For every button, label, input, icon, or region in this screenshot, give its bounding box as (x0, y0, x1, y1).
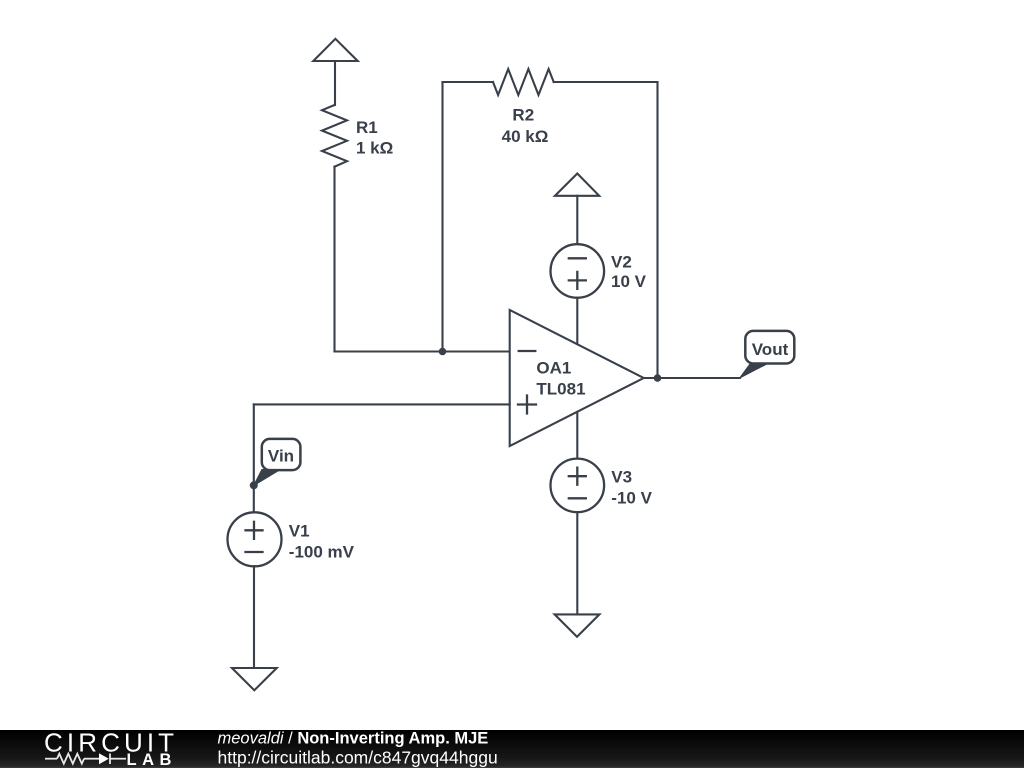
svg-text:40 kΩ: 40 kΩ (502, 127, 549, 146)
power VCC symbol (R1 top) (313, 39, 357, 61)
svg-text:R2: R2 (512, 105, 534, 124)
resistor R2 (493, 69, 554, 95)
voltage source V3 (551, 459, 605, 513)
resistor R1 (322, 105, 347, 167)
node dot (Vin anchor) (250, 481, 258, 489)
node junction dot (feedback / inverting input) (439, 348, 447, 356)
node junction dot (output) (654, 374, 662, 382)
flag Vin pointer (254, 470, 280, 486)
svg-text:http://circuitlab.com/c847gvq4: http://circuitlab.com/c847gvq44hggu (218, 748, 498, 768)
wire V3 to ground (576, 512, 578, 614)
svg-text:-10 V: -10 V (611, 489, 652, 508)
wire R2 to right vertical (554, 81, 658, 83)
wire V2 to op-amp V+ pin (576, 298, 578, 344)
svg-text:Vout: Vout (752, 340, 789, 359)
svg-text:Vin: Vin (268, 446, 294, 465)
svg-text:1 kΩ: 1 kΩ (356, 139, 393, 158)
svg-text:-100 mV: -100 mV (289, 543, 355, 562)
wire V1 to ground (253, 566, 255, 668)
op-amp plus input symbol (518, 396, 536, 414)
wire output (644, 377, 740, 379)
voltage source V1 (228, 512, 282, 566)
flag Vout pointer (740, 363, 768, 378)
wire VCC to R1 (334, 61, 336, 105)
wire Vin vertical (253, 404, 255, 512)
svg-text:V3: V3 (611, 467, 632, 486)
wire op-amp V- pin to V3 (576, 412, 578, 459)
wire inverting input horizontal (335, 350, 510, 352)
footer bar (0, 730, 1024, 768)
wire noninverting input horizontal (254, 403, 510, 405)
svg-text:meovaldi / Non-Inverting Amp.: meovaldi / Non-Inverting Amp. MJE (218, 730, 489, 748)
wire feedback top left (443, 81, 494, 83)
svg-text:10 V: 10 V (611, 272, 647, 291)
svg-text:OA1: OA1 (536, 359, 571, 378)
voltage source V2 (551, 244, 605, 298)
logo diode triangle (99, 753, 109, 764)
wire R1 bottom to inverting-input node (333, 167, 335, 352)
svg-text:V1: V1 (289, 522, 310, 541)
op-amp minus input symbol (519, 350, 536, 352)
svg-text:TL081: TL081 (536, 379, 585, 398)
flag Vin box (262, 439, 301, 470)
wire feedback left vertical (441, 82, 443, 352)
ground symbol (V1) (232, 668, 277, 690)
logo wire-resistor-diode line (45, 754, 126, 765)
op-amp OA1 triangle (510, 310, 644, 446)
wire VCC to V2 (576, 196, 578, 245)
svg-text:V2: V2 (611, 252, 632, 271)
ground symbol (V3) (555, 614, 600, 636)
wire feedback right vertical (656, 82, 658, 378)
svg-text:R1: R1 (356, 118, 378, 137)
flag Vout box (745, 331, 794, 364)
svg-text:LAB: LAB (127, 751, 177, 768)
power VCC symbol (above V2) (555, 174, 599, 196)
